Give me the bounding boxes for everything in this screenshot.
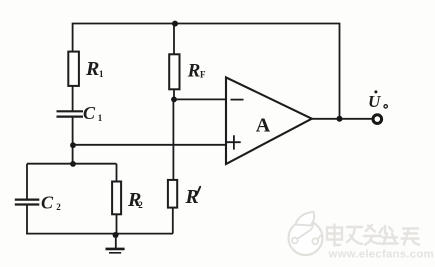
svg-text:2: 2 [56, 202, 61, 212]
resistor R1 [68, 52, 79, 86]
wire R2 upper lead [116, 164, 118, 182]
node ground junction [113, 232, 119, 238]
ground [115, 234, 117, 248]
svg-text:2: 2 [138, 200, 143, 210]
wire loop top [27, 163, 117, 165]
resistor R' [168, 180, 177, 208]
svg-text:F: F [200, 69, 206, 79]
wire R1 to C1 [72, 86, 74, 111]
node output junction [337, 116, 343, 122]
svg-text:www.elecfans.com: www.elecfans.com [328, 249, 434, 261]
svg-text:R: R [185, 186, 199, 208]
op-amp minus sign [231, 99, 244, 101]
svg-text:R: R [187, 61, 201, 82]
wire R2 lower lead [116, 214, 118, 233]
wire C2 upper lead [26, 164, 28, 199]
capacitor C2 [15, 199, 40, 201]
wire RF lower lead [173, 89, 175, 99]
capacitor C1 [57, 110, 84, 112]
resistor R2 [112, 182, 121, 215]
wire RF upper lead [173, 24, 175, 55]
wire C2 lower lead [26, 205, 28, 234]
wire output [312, 118, 373, 120]
wire loop bottom [26, 233, 173, 235]
op-amp plus sign [227, 135, 241, 149]
svg-text:C: C [83, 103, 96, 123]
wire to noninverting input [73, 144, 226, 146]
node inverting junction [171, 97, 177, 103]
node noninverting junction [70, 142, 76, 148]
watermark logo circle [289, 212, 323, 255]
svg-text:A: A [256, 114, 271, 136]
op-amp A [226, 77, 312, 164]
wire inverting node down to R' [172, 99, 174, 179]
svg-text:C: C [41, 192, 54, 212]
wire top feedback from R1 top across to output drop [73, 24, 340, 119]
svg-text:1: 1 [99, 69, 104, 79]
resistor RF [169, 54, 179, 89]
node top RF tap [172, 21, 178, 27]
wire to inverting input [174, 98, 226, 100]
wire R' lower lead [172, 208, 174, 234]
svg-text:U: U [368, 92, 381, 111]
watermark hanzi strokes [327, 225, 419, 246]
wire C1 down to loop [72, 117, 74, 164]
node loop top junction [70, 161, 76, 167]
svg-text:R: R [85, 58, 99, 80]
svg-text:1: 1 [98, 113, 103, 123]
terminal Uo [373, 115, 382, 124]
